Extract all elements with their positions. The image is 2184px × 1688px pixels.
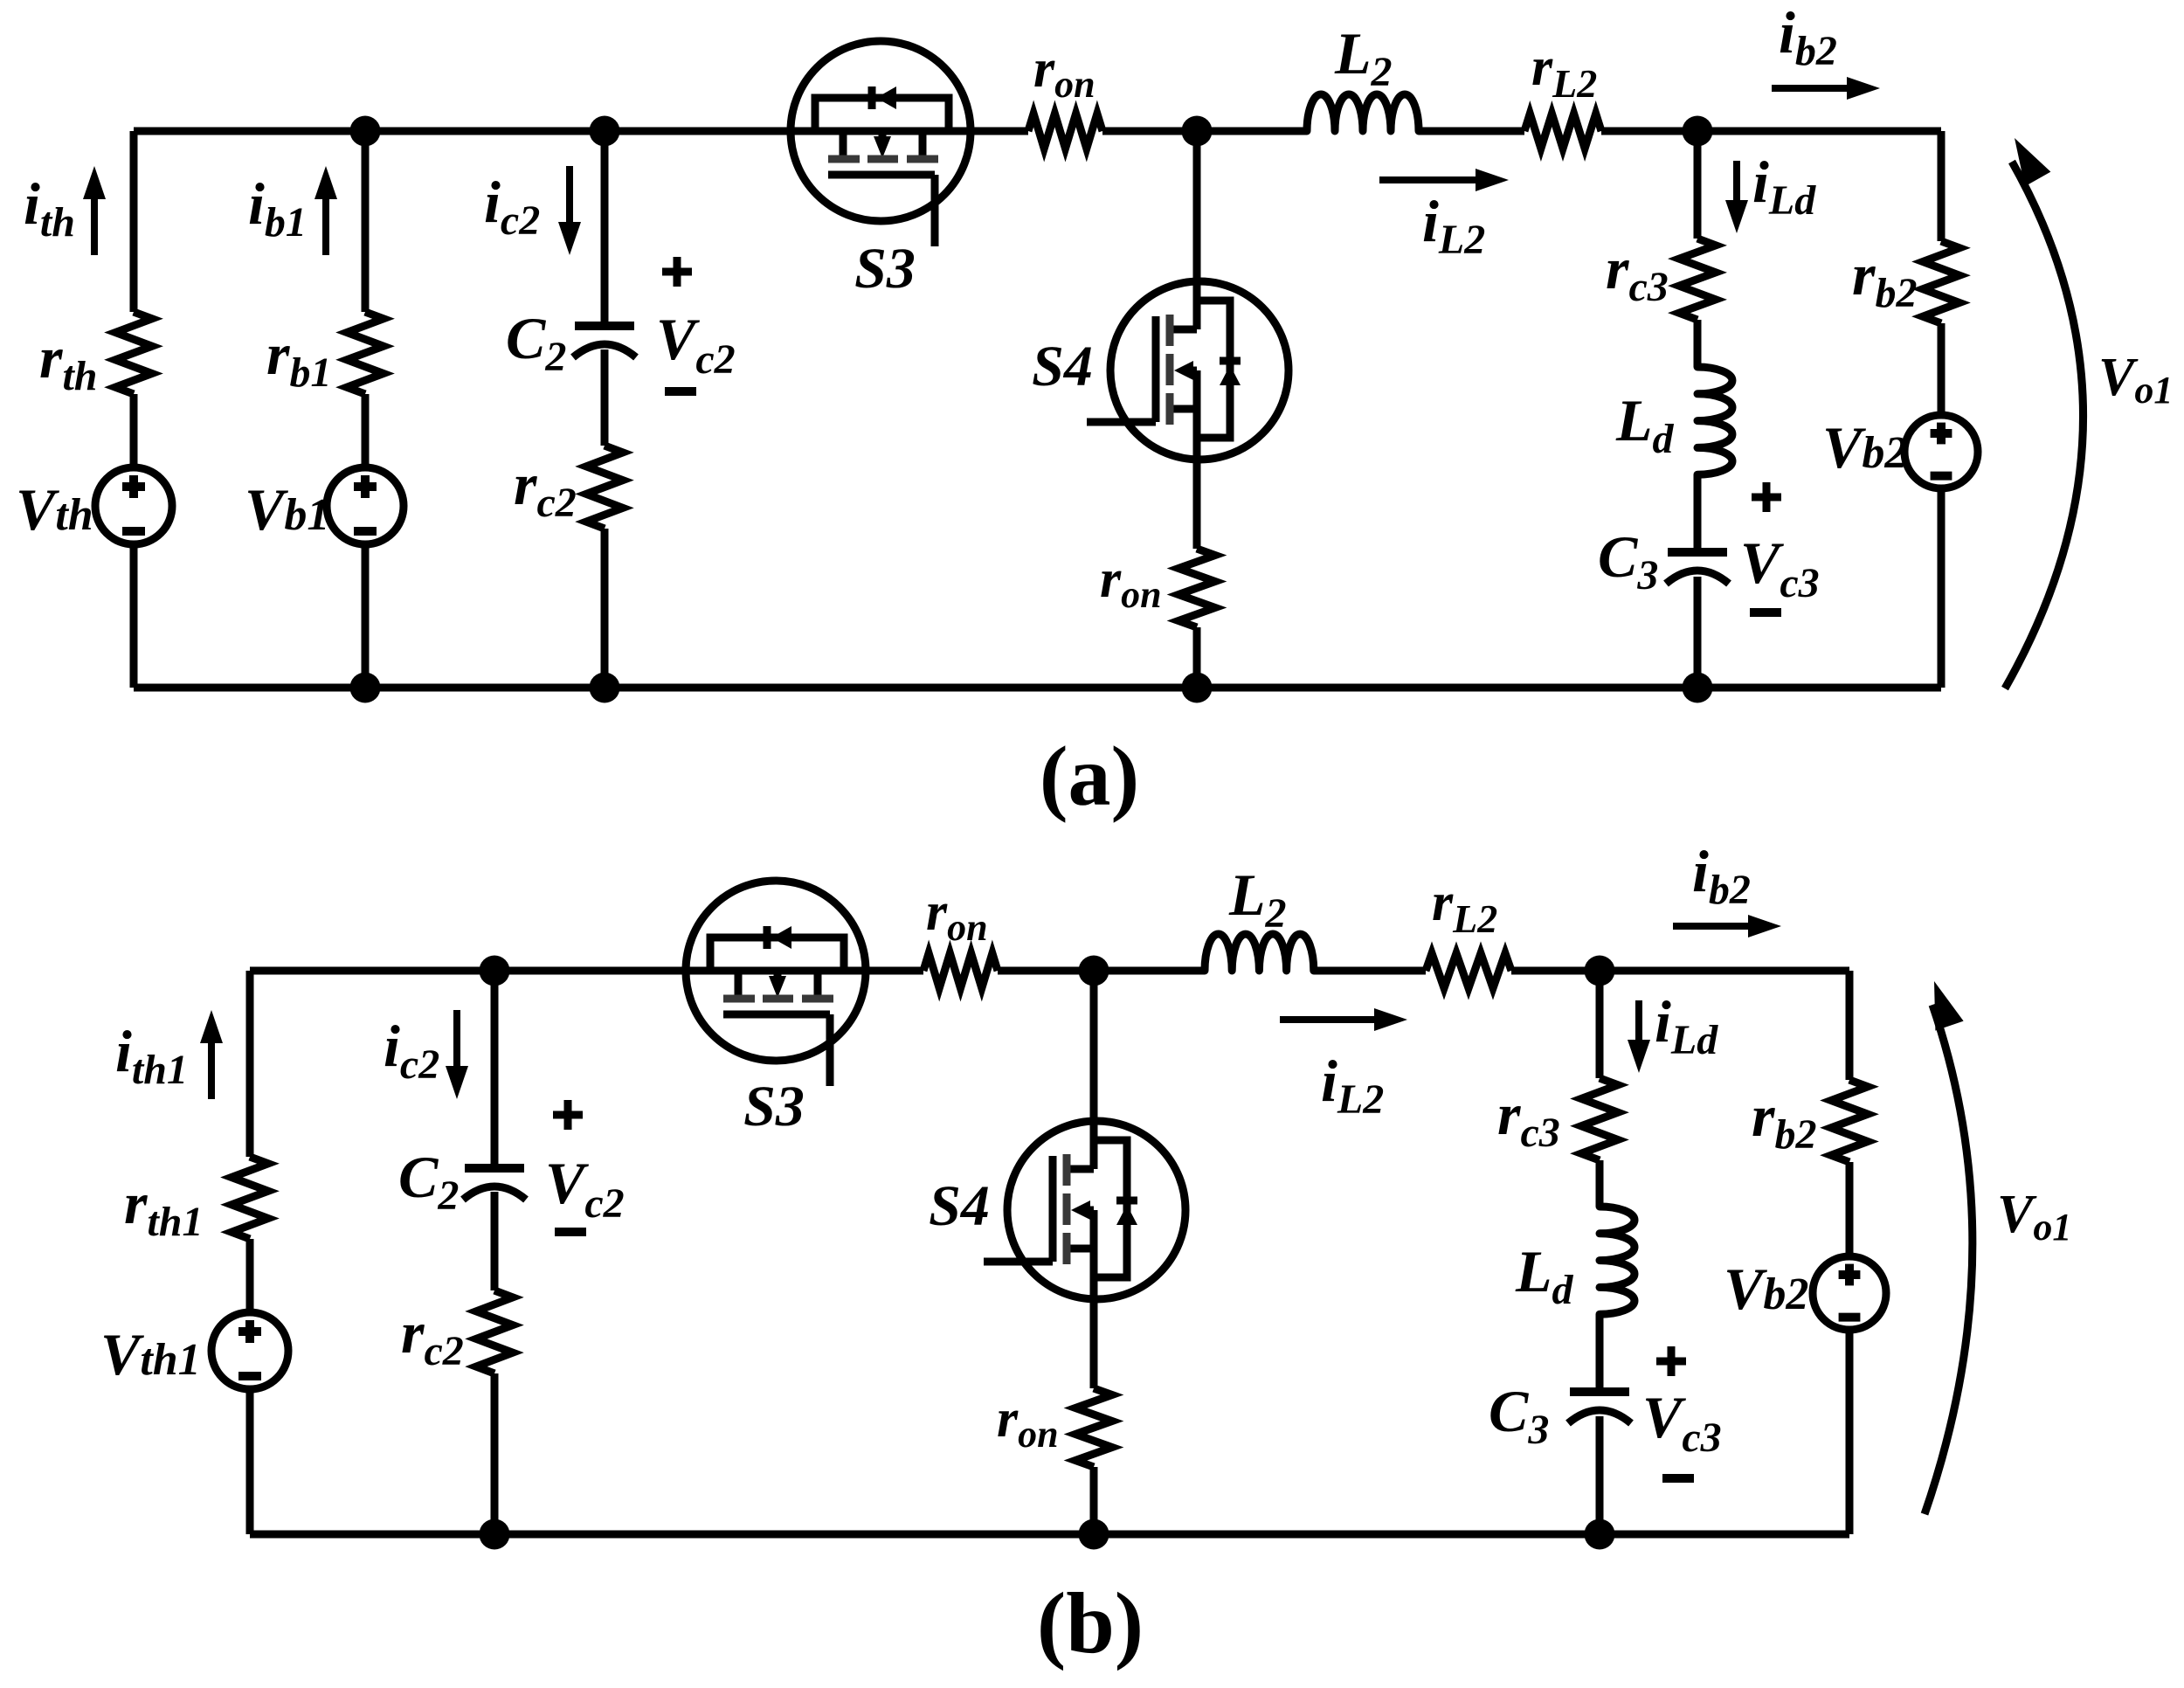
transistor S3a body arrow [879,131,887,138]
transistor S4b channel segments [1063,1154,1071,1186]
wire top rail (b) right segment [1511,967,1849,975]
transistor S4a drain lead inside [1193,281,1201,329]
transistor S3b channel segments [723,995,755,1003]
transistor S4b body circle [1007,1121,1185,1299]
wire bottom rail (b) [250,1531,1849,1539]
transistor S4b top connector [1067,1166,1094,1173]
transistor S3b gate lead [826,1014,834,1086]
transistor S4a body circle [1110,281,1289,460]
arrow i_th1 [208,1036,215,1099]
transistor S4b bottom connector [1067,1245,1094,1253]
plus V_c2 (b) [553,1111,583,1119]
transistor S4a body arrow [1190,367,1197,375]
svg-text:(b): (b) [1037,1574,1144,1671]
arrow i_L2 (b) [1280,1016,1381,1023]
arrow i_Ld (a) [1733,161,1740,207]
node S4 top (b) [1079,956,1109,986]
transistor S3b body arrow [774,971,782,978]
wire r_th to V_th [130,394,138,468]
transistor S4b drain lead inside [1090,1121,1098,1169]
wire C2 to r_c2 (a) [601,349,609,446]
node rc3 top (b) [1585,956,1615,986]
source V_th [95,467,172,544]
transistor S3a body circle [791,41,971,221]
wire L_d to C3 (b) [1596,1314,1604,1392]
wire top rail (a) left segment [134,128,1028,135]
wire r_b1 to V_b1 [362,394,370,468]
capacitor C3 (b) [1570,1387,1629,1396]
inductor L_d (a) [1697,367,1732,474]
wire r_c3 to L_d (a) [1694,320,1702,367]
wire r_c3 to L_d (b) [1596,1160,1604,1207]
transistor S4a body-diode loop [1197,301,1230,438]
arc V_o1 (b) [1925,1005,1973,1514]
transistor S4a body-diode symbol [1220,357,1241,365]
source V_b2 (a) [1904,415,1978,488]
wire top rail (a) right segment [1601,128,1941,135]
wire right branch upper (b) [1846,971,1854,1080]
minus V_c3 (a) [1750,608,1781,617]
resistor r_th [115,312,152,394]
capacitor C2 (a) [575,322,634,330]
wire top rail (a) between L2 and r_L2 [1419,128,1524,135]
transistor S3a body-diode symbol [868,86,876,109]
minus V_c2 (a) [665,387,696,396]
resistor r_b1 [347,312,384,394]
wire V_b1 to bottom rail [362,543,370,688]
node c2 bottom (b) [480,1519,510,1550]
resistor r_L2 (b) [1426,953,1511,988]
transistor S4a top connector [1170,326,1197,334]
wire r_c2 to bottom rail (a) [601,529,609,688]
node S4 top (a) [1182,116,1213,147]
resistor r_L2 (a) [1524,114,1601,149]
plus V_c2 (a) [662,268,692,276]
arc V_o1 (a) [2005,162,2084,688]
transistor S4b body arrow [1087,1207,1094,1214]
wire V_b2 to bottom rail (b) [1846,1330,1854,1534]
wire S4 to r_on (b) [1090,1210,1098,1388]
wire C3 to bottom rail (a) [1694,577,1702,688]
wire r_on to bottom rail (a) [1193,627,1201,688]
wire left branch upper (b) [246,971,254,1157]
node c2 bottom (a) [590,673,620,703]
source V_b1 [327,467,404,544]
transistor S4b source trunk [1090,1210,1098,1299]
arrow i_th [91,192,98,255]
transistor S4a channel segments [1166,315,1174,346]
transistor S4b gate lead [984,1258,1053,1266]
svg-text:S3: S3 [854,237,916,301]
resistor r_c3 (a) [1679,239,1716,320]
resistor r_on (b) in top rail [923,953,998,988]
wire V_th1 to bottom rail (b) [246,1388,254,1534]
capacitor C3 (a) [1668,548,1727,557]
node rc3 top (a) [1683,116,1713,147]
svg-text:S4: S4 [1032,335,1093,398]
minus V_c3 (b) [1662,1474,1694,1483]
minus V_c2 (b) [555,1228,586,1236]
arrow i_c2 (a) [566,166,573,229]
transistor S3a gate lead [931,175,939,246]
source V_th1 [211,1312,288,1389]
plus V_c3 (a) [1752,494,1781,502]
transistor S4a source trunk [1193,370,1201,460]
wire c2 branch upper (a) [601,131,609,326]
plus V_c3 (b) [1656,1358,1686,1366]
wire b1 branch upper (a) [362,131,370,312]
wire left branch upper (a) [130,131,138,312]
wire r_on to bottom rail (b) [1090,1467,1098,1534]
wire L_d to C3 (a) [1694,474,1702,552]
wire node to r_c3 (a) [1694,131,1702,239]
node b1 bottom (a) [350,673,381,703]
resistor r_on (a) in top rail [1028,114,1102,149]
transistor S3a gate bar [828,171,935,179]
wire r_c2 to bottom rail (b) [491,1373,499,1534]
resistor r_th1 [232,1157,268,1239]
wire node to S4 (b) [1090,971,1098,1169]
transistor S4a gate bar [1152,316,1160,422]
transistor S3b body-diode loop [710,937,844,971]
transistor S3a channel segments [828,156,860,163]
wire bottom rail (a) [134,684,1941,692]
node S4 bottom (a) [1182,673,1213,703]
transistor S4a bottom connector [1170,405,1197,413]
inductor L_d (b) [1600,1207,1635,1314]
svg-text:S3: S3 [743,1075,805,1138]
wire C2 to r_c2 (b) [491,1192,499,1290]
wire top rail (b) between r_on and node [998,967,1205,975]
arrow i_L2 (a) [1379,176,1482,183]
transistor S3a body-diode loop [815,98,949,131]
node S4 bottom (b) [1079,1519,1109,1550]
transistor S4a gate lead [1087,419,1156,426]
transistor S3b gate bar [723,1011,830,1019]
wire top rail (a) between r_on and node [1102,128,1307,135]
wire r_b2 to V_b2 (b) [1846,1162,1854,1256]
node b1 top (a) [350,116,381,147]
wire node to r_c3 (b) [1596,971,1604,1078]
wire r_th1 to V_th1 [246,1239,254,1313]
wire node to S4 (a) [1193,131,1201,329]
resistor r_on S4 branch (a) [1178,549,1215,627]
resistor r_c2 (a) [586,446,623,529]
node rc3 bottom (a) [1683,673,1713,703]
transistor S4b gate bar [1049,1156,1057,1262]
wire right branch upper (a) [1938,131,1946,241]
node c2 top (b) [480,956,510,986]
resistor r_b2 (b) [1831,1080,1868,1162]
inductor L2 (a) [1307,94,1419,131]
wire top rail (b) left segment [250,967,923,975]
arrow i_Ld (b) [1635,1000,1642,1047]
transistor S3b source/drain stubs [735,971,743,997]
node rc3 bottom (b) [1585,1519,1615,1550]
inductor L2 (b) [1205,934,1314,971]
transistor S4b body-diode loop [1094,1140,1127,1277]
wire C3 to bottom rail (b) [1596,1416,1604,1534]
wire c2 branch upper (b) [491,971,499,1168]
capacitor C2 (b) [465,1164,524,1173]
wire V_th to bottom rail [130,543,138,688]
node c2 top (a) [590,116,620,147]
svg-text:S4: S4 [929,1174,990,1238]
resistor r_b2 (a) [1923,241,1959,323]
resistor r_on S4 branch (b) [1075,1388,1112,1467]
source V_b2 (b) [1813,1256,1886,1330]
transistor S3b body-diode symbol [764,926,771,949]
resistor r_c3 (b) [1581,1078,1618,1160]
arrow i_b1 [322,192,329,255]
transistor S3a source/drain stubs [840,131,847,157]
resistor r_c2 (b) [476,1290,513,1373]
transistor S4b body-diode symbol [1116,1197,1137,1205]
wire r_b2 to V_b2 (a) [1938,323,1946,415]
arrow i_b2 (b) [1673,923,1755,930]
arrow i_c2 (b) [453,1010,460,1073]
wire top rail (b) between L2 and r_L2 [1314,967,1426,975]
wire V_b2 to bottom rail (a) [1938,488,1946,688]
wire S4 to r_on (a) [1193,370,1201,549]
arrow i_b2 (a) [1772,85,1854,92]
svg-text:(a): (a) [1040,730,1139,824]
transistor S3b body circle [686,881,866,1061]
